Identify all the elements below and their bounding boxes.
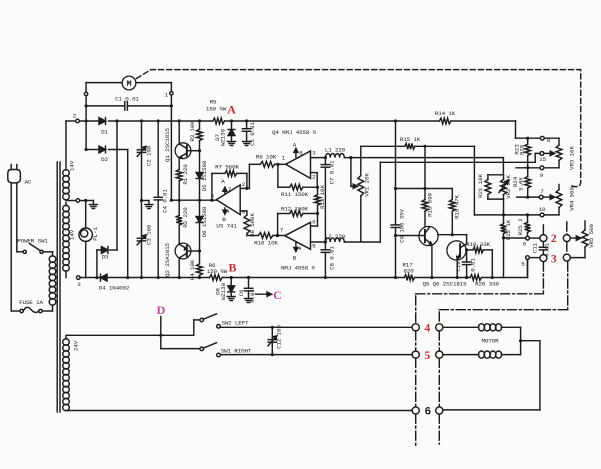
pilot lamp PL-1 bbox=[79, 199, 92, 278]
wire Q2 base bbox=[187, 249, 201, 252]
zener D8 WZ130 bbox=[228, 278, 235, 297]
resistor R9 10K bbox=[249, 161, 285, 167]
wire AC cord left bbox=[10, 183, 12, 311]
terminal 15 bbox=[539, 152, 546, 164]
label VR1 20K bbox=[364, 173, 371, 197]
svg-text:VR1 20K: VR1 20K bbox=[364, 173, 371, 197]
svg-text:M: M bbox=[126, 79, 131, 89]
svg-text:150 ½W: 150 ½W bbox=[207, 268, 228, 275]
connector pad 3 left bbox=[540, 255, 547, 262]
transistor Q1 2SC1815 bbox=[175, 143, 191, 159]
wire D2 column bbox=[126, 150, 129, 280]
svg-text:C1 0.01: C1 0.01 bbox=[115, 96, 139, 103]
capacitor C7 0.01 bbox=[321, 158, 329, 242]
capacitor C6 0.01 bbox=[244, 276, 252, 298]
svg-text:C9 100 35V: C9 100 35V bbox=[398, 208, 405, 242]
wire Q5 base bbox=[394, 234, 425, 237]
svg-text:VR5 500: VR5 500 bbox=[588, 224, 595, 248]
svg-text:C11: C11 bbox=[532, 242, 539, 253]
dashed link from motor bbox=[137, 70, 581, 187]
svg-text:R16 390: R16 390 bbox=[426, 193, 433, 217]
label R5 150 bbox=[206, 99, 227, 113]
power arrow B pin4 4558B bbox=[293, 243, 302, 262]
wire mid bus bbox=[170, 199, 217, 202]
svg-text:A: A bbox=[227, 103, 236, 117]
power switch SW1 bbox=[17, 244, 53, 254]
svg-text:C2 100: C2 100 bbox=[146, 145, 153, 166]
wire row10 bbox=[474, 213, 540, 216]
pot VR2 20K bbox=[499, 175, 509, 199]
label NMJ 4558 half bottom bbox=[281, 265, 315, 272]
label R2 220 bbox=[182, 207, 189, 228]
resistor R5 150 halfW bbox=[213, 118, 225, 124]
wiper VR1 bbox=[349, 156, 357, 189]
wiper VR3 bbox=[544, 151, 555, 155]
resistor R10 10K bbox=[247, 233, 285, 239]
motor winding lower bbox=[443, 341, 521, 359]
svg-text:SW1 RIGHT: SW1 RIGHT bbox=[221, 348, 252, 355]
label R17 820 bbox=[402, 262, 414, 275]
wire 741 pin2 bbox=[240, 164, 249, 188]
terminal 7 bbox=[539, 188, 544, 199]
connector pad 2 right bbox=[563, 235, 570, 242]
label pin6 4558B bbox=[312, 219, 316, 226]
svg-text:3: 3 bbox=[551, 254, 557, 266]
terminal 8 bbox=[540, 136, 559, 144]
svg-text:NMJ 4558 ½: NMJ 4558 ½ bbox=[281, 265, 315, 272]
svg-text:AC: AC bbox=[25, 179, 32, 186]
diode D5 1S1588 bbox=[196, 151, 203, 201]
wire 4558B pin6 bbox=[311, 214, 318, 227]
label pin3 4558A bbox=[312, 150, 316, 157]
label D1 bbox=[101, 129, 108, 136]
svg-text:L2 220: L2 220 bbox=[325, 233, 346, 240]
resistor R14 1K bbox=[439, 118, 451, 124]
label Q4 NMJ 4558 half bbox=[272, 129, 317, 136]
wire row15 stub bbox=[535, 152, 540, 154]
svg-text:C4 0.01: C4 0.01 bbox=[161, 189, 168, 213]
connector pad 6 left bbox=[412, 407, 419, 414]
svg-text:U3 741: U3 741 bbox=[216, 223, 237, 230]
label Q2 2SA1015 bbox=[164, 242, 171, 276]
wire row5 bbox=[220, 353, 412, 356]
resistor R17 820 bbox=[404, 275, 414, 281]
label R19 33K bbox=[466, 241, 490, 248]
wire motor right bbox=[136, 82, 172, 84]
svg-text:D: D bbox=[157, 303, 166, 317]
terminal 1 bbox=[165, 83, 173, 99]
wire 4558B pin5 bbox=[311, 241, 326, 243]
wire C2C3 mid + ground stub bbox=[140, 199, 149, 202]
svg-text:D5 1S1588: D5 1S1588 bbox=[201, 160, 208, 191]
svg-text:C6: C6 bbox=[238, 289, 245, 296]
resistor R1 220 bbox=[176, 158, 182, 201]
cable pad2 stubs bbox=[543, 222, 566, 254]
svg-text:C5 0.01: C5 0.01 bbox=[249, 122, 256, 146]
svg-text:10: 10 bbox=[539, 206, 546, 213]
inductor L2 220 bbox=[324, 238, 381, 244]
label R7 560K bbox=[215, 164, 239, 171]
svg-text:820: 820 bbox=[519, 144, 526, 155]
wire row8 bbox=[516, 137, 541, 140]
pot VR5 500 bbox=[570, 221, 588, 258]
diode D3 bbox=[97, 247, 117, 254]
wire VR2 bottom to row10 bbox=[502, 199, 505, 216]
svg-text:POWER SW1: POWER SW1 bbox=[17, 238, 48, 245]
wire Q6 emitter bbox=[456, 259, 459, 279]
power arrow A pin7 of 741 bbox=[221, 178, 232, 194]
label pin5 4558B bbox=[312, 243, 316, 250]
motor M bbox=[122, 76, 136, 90]
wire Q2 collector bbox=[178, 258, 181, 279]
wire motor left bbox=[86, 82, 122, 84]
node B junction bbox=[230, 276, 233, 279]
op-amp Q4 4558 B bbox=[285, 222, 311, 249]
svg-text:R25 2: R25 2 bbox=[517, 218, 524, 236]
label D2 bbox=[101, 156, 108, 163]
wire top rail right bbox=[451, 121, 516, 138]
wire Q5 emitter to rail bbox=[430, 245, 433, 280]
diode D1 bbox=[99, 118, 213, 125]
label MOTOR bbox=[482, 337, 500, 344]
label VR2 20K bbox=[505, 175, 512, 199]
svg-text:4: 4 bbox=[424, 323, 430, 335]
svg-text:5.6K: 5.6K bbox=[517, 177, 524, 191]
label C2 100 bbox=[146, 145, 153, 166]
label PL-1 bbox=[92, 227, 99, 241]
label R22 1K bbox=[505, 219, 512, 240]
switch SW2 LEFT bbox=[200, 314, 220, 328]
diode D4 1N4002 bbox=[101, 274, 108, 281]
resistor R22 1K bbox=[501, 215, 507, 278]
connector pad 3 right bbox=[563, 254, 570, 261]
label L1 220 bbox=[325, 147, 346, 154]
label 14V upper bbox=[69, 160, 76, 171]
svg-text:0.01: 0.01 bbox=[469, 258, 476, 272]
capacitor C8 0.01 bbox=[321, 242, 329, 279]
svg-text:150 ½W: 150 ½W bbox=[206, 106, 227, 113]
node A junction bbox=[230, 119, 248, 122]
diode D6 1S1588 bbox=[196, 200, 203, 251]
label R13 10K bbox=[319, 185, 326, 209]
ground centre tap bbox=[89, 201, 97, 209]
svg-text:WZ130: WZ130 bbox=[220, 282, 227, 300]
label C5 0.01 bbox=[249, 122, 256, 146]
terminal motor left bbox=[84, 92, 87, 95]
resistor R2 220 bbox=[176, 200, 182, 244]
label R14 1K bbox=[435, 110, 456, 117]
label R12 150K bbox=[281, 206, 309, 213]
label 14V lower bbox=[69, 229, 76, 240]
label VR3 10K bbox=[568, 146, 575, 170]
label R9 10K bbox=[256, 154, 277, 161]
svg-text:D6 1S1588: D6 1S1588 bbox=[201, 206, 208, 237]
wire row7 bbox=[517, 196, 540, 198]
label AC bbox=[25, 179, 32, 186]
svg-text:MOTOR: MOTOR bbox=[482, 337, 500, 344]
label R18 47K bbox=[453, 195, 460, 219]
arrow to node C bbox=[256, 292, 272, 296]
label D3 bbox=[102, 254, 109, 261]
svg-text:C8 0.01: C8 0.01 bbox=[329, 246, 336, 270]
label POWER SW1 bbox=[17, 238, 48, 245]
resistor R25 2 bbox=[525, 215, 531, 236]
resistor R13 10K bbox=[315, 187, 321, 215]
label C9 100 35V bbox=[398, 208, 405, 242]
label C4 0.01 bbox=[161, 189, 168, 213]
node D wire bbox=[67, 317, 200, 349]
wire M left column bbox=[85, 83, 87, 93]
label R3 10K bbox=[189, 121, 196, 142]
svg-text:R11 150K: R11 150K bbox=[281, 191, 309, 198]
svg-text:R12 150K: R12 150K bbox=[281, 206, 309, 213]
svg-text:R15 1K: R15 1K bbox=[400, 136, 421, 143]
svg-text:R22 1K: R22 1K bbox=[505, 219, 512, 240]
svg-text:0.01: 0.01 bbox=[544, 243, 551, 257]
transformer 24V secondary bbox=[63, 335, 70, 410]
label U3 741 bbox=[216, 223, 237, 230]
svg-text:24V: 24V bbox=[73, 340, 80, 351]
wire 741 pin3 bbox=[240, 211, 247, 215]
wire terminal6 stub bbox=[504, 237, 541, 239]
pot VR4 500 bbox=[544, 185, 562, 215]
transistor Q5 bbox=[419, 226, 438, 245]
label R10 10K bbox=[254, 240, 278, 247]
cable horizontal upper bbox=[416, 262, 544, 294]
resistor R12 150K bbox=[276, 211, 318, 237]
wire terminal1 column bbox=[170, 95, 172, 200]
capacitor C12 100 bbox=[268, 327, 277, 354]
svg-text:R20 330: R20 330 bbox=[475, 281, 499, 288]
label R4 10K bbox=[189, 259, 196, 280]
cable horizontal lower bbox=[439, 262, 567, 310]
svg-text:C12 100: C12 100 bbox=[275, 325, 282, 349]
label C6 0.01 bbox=[238, 289, 256, 303]
label R8 560K bbox=[249, 213, 256, 237]
label pin7 4558B bbox=[280, 227, 284, 234]
capacitor C5 0.01 bbox=[242, 121, 250, 141]
svg-text:R3 10K: R3 10K bbox=[189, 121, 196, 142]
label D7 WZ130 bbox=[214, 128, 227, 146]
capacitor C4 0.01 bbox=[154, 119, 162, 279]
label R11 150K bbox=[281, 191, 309, 198]
svg-text:B: B bbox=[228, 261, 236, 275]
resistor R24 5.6K bbox=[525, 168, 531, 199]
diode D2 bbox=[85, 146, 128, 153]
svg-text:WZ130: WZ130 bbox=[220, 128, 227, 146]
svg-text:D4 1N4002: D4 1N4002 bbox=[99, 285, 130, 292]
svg-text:R19 33K: R19 33K bbox=[466, 241, 490, 248]
label C10 0.01 bbox=[455, 258, 476, 272]
svg-text:14V: 14V bbox=[69, 160, 76, 171]
cable left pads column bbox=[415, 296, 417, 446]
terminal 3 transformer bbox=[77, 276, 82, 288]
svg-text:Q5 Q6 2SC1815: Q5 Q6 2SC1815 bbox=[422, 281, 467, 288]
wire row15 long bbox=[380, 153, 535, 162]
capacitor C9 100 35V bbox=[391, 119, 400, 279]
terminal 6 bbox=[523, 236, 530, 247]
transistor Q2 2SA1015 bbox=[175, 243, 191, 259]
ground C2C3 mid bbox=[145, 201, 153, 209]
svg-text:VR3 10K: VR3 10K bbox=[568, 146, 575, 170]
inductor L1 220 bbox=[324, 154, 504, 160]
transistor Q6 bbox=[447, 241, 467, 260]
connector pad 6 right bbox=[436, 407, 443, 414]
label L2 220 bbox=[325, 233, 346, 240]
svg-text:R7 560K: R7 560K bbox=[215, 164, 239, 171]
wire bottom rail bbox=[80, 260, 527, 278]
wiper VR5 bbox=[570, 236, 581, 240]
wire Q5 to Q6 bbox=[438, 235, 467, 244]
resistor R21 10K bbox=[485, 175, 504, 199]
svg-text:R10 10K: R10 10K bbox=[254, 240, 278, 247]
transformer core bbox=[57, 162, 60, 412]
ground C6 bbox=[245, 299, 253, 303]
label C3 100 bbox=[146, 224, 153, 245]
label pin1 4558A bbox=[282, 155, 286, 162]
op-amp U3 741 bbox=[216, 185, 240, 215]
wire D3 anode down bbox=[95, 250, 98, 279]
terminal 5 bbox=[521, 256, 529, 268]
capacitor C3 100 bbox=[137, 201, 146, 280]
resistor R18 47K bbox=[449, 189, 455, 237]
wire R15 column down bbox=[473, 146, 475, 215]
terminal 10 bbox=[539, 206, 546, 217]
AC plug bbox=[8, 165, 21, 184]
wire motor common to pad6 bbox=[443, 341, 540, 410]
svg-text:D1: D1 bbox=[101, 129, 108, 136]
resistor R11 150K bbox=[278, 164, 319, 190]
svg-text:SW2 LEFT: SW2 LEFT bbox=[221, 320, 249, 327]
svg-text:VR4 500: VR4 500 bbox=[568, 187, 575, 211]
svg-text:2: 2 bbox=[551, 233, 557, 245]
label C11 0.01 bbox=[532, 242, 551, 256]
label R15 1K bbox=[400, 136, 421, 143]
resistor R6 150 halfW bbox=[209, 275, 222, 281]
node centre tap terminal bbox=[66, 199, 93, 203]
transformer 14V lower secondary bbox=[63, 203, 70, 278]
wire R16 R18 top feed bbox=[396, 187, 453, 190]
wire terminal5 links bbox=[528, 258, 541, 278]
wire top rail mid bbox=[225, 120, 440, 122]
svg-text:R18 47K: R18 47K bbox=[453, 195, 460, 219]
svg-text:Q1 2SC1815: Q1 2SC1815 bbox=[164, 127, 171, 161]
svg-text:C: C bbox=[273, 288, 282, 302]
wire M left column lower bbox=[85, 96, 87, 150]
svg-text:R5: R5 bbox=[210, 99, 217, 106]
wire row4 bbox=[220, 326, 412, 329]
svg-text:Q4 NMJ 4558 ½: Q4 NMJ 4558 ½ bbox=[272, 129, 317, 136]
connector pad 2 left bbox=[540, 235, 547, 242]
connector pad 5 right bbox=[436, 351, 443, 358]
capacitor C11 0.01 bbox=[539, 242, 547, 255]
wire Q1 base bbox=[187, 149, 201, 152]
svg-text:R8 560K: R8 560K bbox=[249, 213, 256, 237]
label pin2 741 bbox=[242, 181, 246, 188]
capacitor C10 0.01 bbox=[462, 250, 470, 279]
label pin3 741 bbox=[242, 208, 246, 215]
svg-text:3: 3 bbox=[242, 208, 246, 215]
label R21 10K bbox=[477, 174, 484, 198]
label D8 WZ130 bbox=[215, 282, 228, 300]
svg-text:VR2 20K: VR2 20K bbox=[505, 175, 512, 199]
op-amp Q4 4558 A bbox=[286, 151, 311, 178]
label R1 220 bbox=[182, 164, 189, 185]
wiper VR4 bbox=[543, 195, 555, 199]
label Q1 2SC1815 bbox=[164, 127, 171, 161]
label SW1 RIGHT bbox=[221, 348, 252, 355]
resistor R19 33K bbox=[465, 247, 494, 279]
label VR5 500 bbox=[588, 224, 595, 248]
pot VR3 10K bbox=[544, 138, 562, 168]
ground D8 bbox=[227, 297, 235, 301]
motor winding upper bbox=[443, 324, 522, 343]
wire D3 cathode up to top rail bbox=[115, 119, 118, 250]
svg-text:D3: D3 bbox=[102, 254, 109, 261]
capacitor C1 0.01 bbox=[86, 102, 127, 110]
wire 4558A pin2 bbox=[311, 173, 318, 188]
svg-text:5: 5 bbox=[424, 350, 430, 362]
label FUSE 1A bbox=[19, 299, 43, 306]
pot VR1 20K bbox=[358, 146, 364, 242]
label D6 1S1588 bbox=[201, 206, 208, 237]
connector pad 5 left bbox=[412, 351, 419, 358]
wire 4558A pin3 output bbox=[311, 157, 326, 159]
label VR4 500 bbox=[568, 187, 575, 211]
label pin2 4558A bbox=[312, 174, 316, 181]
svg-text:R9 10K: R9 10K bbox=[256, 154, 277, 161]
resistor R3 10K bbox=[197, 119, 203, 150]
switch SW1 RIGHT bbox=[200, 343, 220, 357]
wire L1 row corner down bbox=[502, 158, 504, 175]
resistor R7 560K feedback bbox=[212, 171, 249, 201]
label 24V bbox=[73, 340, 80, 351]
svg-text:15: 15 bbox=[539, 156, 546, 163]
label R24 5.6K bbox=[512, 176, 525, 190]
svg-text:6: 6 bbox=[425, 406, 431, 418]
wire 24V to pad6 bbox=[68, 410, 412, 412]
svg-text:R2 220: R2 220 bbox=[182, 207, 189, 228]
label C12 100 bbox=[275, 325, 282, 349]
resistor R15 1K bbox=[361, 143, 475, 149]
label D5 1S1588 bbox=[201, 160, 208, 191]
label C7 0.01 bbox=[329, 160, 336, 184]
label R20 330 bbox=[475, 281, 499, 288]
capacitor C2 100 bbox=[137, 119, 146, 200]
transformer 14V upper secondary bbox=[63, 121, 70, 200]
wire L2 row to corner bbox=[379, 162, 381, 242]
ground D7 bbox=[228, 142, 236, 146]
ground C5 bbox=[243, 142, 251, 146]
resistor R4 10K bbox=[197, 251, 203, 279]
resistor R23 820 bbox=[525, 138, 531, 169]
label R16 390 bbox=[426, 193, 433, 217]
terminal 2 bbox=[73, 113, 79, 123]
svg-text:C3 100: C3 100 bbox=[146, 224, 153, 245]
wire row9 bbox=[516, 167, 540, 169]
svg-text:L1 220: L1 220 bbox=[325, 147, 346, 154]
label pin6 741 bbox=[211, 193, 215, 200]
cable right pads column bbox=[438, 312, 440, 444]
power arrow A pin8 4558A bbox=[293, 142, 303, 158]
resistor R8 560K bbox=[244, 215, 250, 236]
fuse FUSE 1A bbox=[11, 307, 52, 312]
label C8 0.01 bbox=[329, 246, 336, 270]
svg-text:R1 220: R1 220 bbox=[182, 164, 189, 185]
svg-text:FUSE 1A: FUSE 1A bbox=[19, 299, 43, 306]
label R6 150 bbox=[207, 262, 228, 275]
svg-text:0.01: 0.01 bbox=[249, 289, 256, 303]
